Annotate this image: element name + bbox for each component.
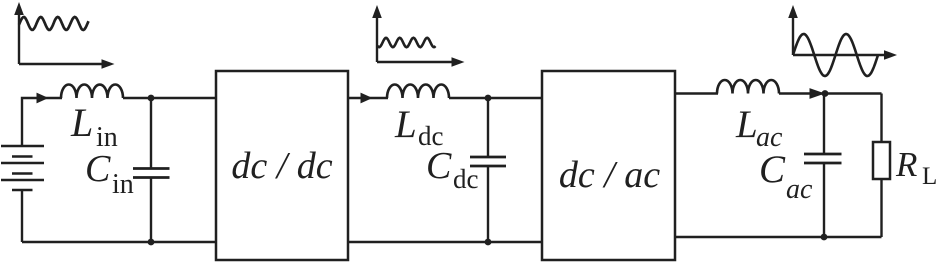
wire bottom rail section 1	[22, 241, 216, 243]
wire dc/ac output to Lac	[675, 92, 718, 94]
wire bottom rail section 3	[675, 236, 882, 238]
wire RL to bottom rail	[880, 179, 882, 237]
capacitor Cac	[804, 94, 842, 238]
svg-text:in: in	[112, 169, 134, 200]
wire Lin to dc/dc box	[123, 97, 216, 99]
wire left vertical top (battery + to top rail)	[22, 98, 62, 146]
svg-text:dc / ac: dc / ac	[559, 154, 660, 196]
svg-text:C: C	[85, 148, 111, 190]
waveform sketch 1 x-axis	[19, 59, 115, 69]
wire dc/dc output to Ldc	[348, 97, 388, 99]
wire Ldc to dc/ac box	[449, 97, 542, 99]
wire right vertical to RL	[880, 94, 882, 143]
converter box dc/ac	[542, 71, 675, 260]
current arrow into Ldc	[361, 93, 373, 104]
svg-text:C: C	[759, 148, 786, 191]
inductor Ldc	[387, 85, 449, 99]
node junction dot at Cdc top	[485, 95, 492, 102]
waveform sketch 1 ripple trace	[19, 17, 89, 30]
svg-text:dc: dc	[453, 164, 479, 194]
node junction dot at Cac bottom	[821, 234, 828, 241]
battery B1	[1, 146, 44, 190]
svg-text:R: R	[895, 145, 917, 184]
converter box dc/dc	[216, 71, 348, 260]
svg-text:L: L	[922, 163, 937, 190]
wire Lac to load	[779, 92, 882, 94]
waveform sketch 3 y-axis	[788, 5, 798, 55]
inductor Lin	[61, 85, 123, 99]
node junction dot at Cdc bottom	[485, 239, 492, 246]
node junction dot at Cin bottom	[148, 239, 155, 246]
svg-text:C: C	[426, 145, 452, 187]
current arrow into Lin	[37, 93, 49, 104]
capacitor Cin	[133, 98, 170, 242]
svg-text:ac: ac	[786, 174, 813, 205]
resistor RL	[873, 142, 890, 179]
svg-text:dc / dc: dc / dc	[231, 145, 332, 187]
current arrow at Cac node	[810, 88, 826, 99]
node junction dot at Cac top	[822, 90, 829, 97]
waveform sketch 3 sine trace	[793, 34, 878, 76]
wire bottom rail section 2	[348, 241, 542, 243]
waveform sketch 2 ripple trace	[378, 38, 436, 47]
waveform sketch 2 y-axis	[372, 5, 382, 62]
inductor Lac	[717, 80, 779, 94]
node junction dot at Cin top	[148, 95, 155, 102]
waveform sketch 1 y-axis	[14, 2, 24, 64]
waveform sketch 2 x-axis	[377, 57, 465, 67]
svg-text:L: L	[394, 103, 417, 146]
svg-text:L: L	[70, 100, 93, 145]
capacitor Cdc	[470, 98, 506, 242]
waveform sketch 3 x-axis	[793, 50, 897, 60]
svg-text:L: L	[735, 103, 758, 146]
wire left vertical bottom (battery - to bottom rail)	[21, 190, 23, 242]
